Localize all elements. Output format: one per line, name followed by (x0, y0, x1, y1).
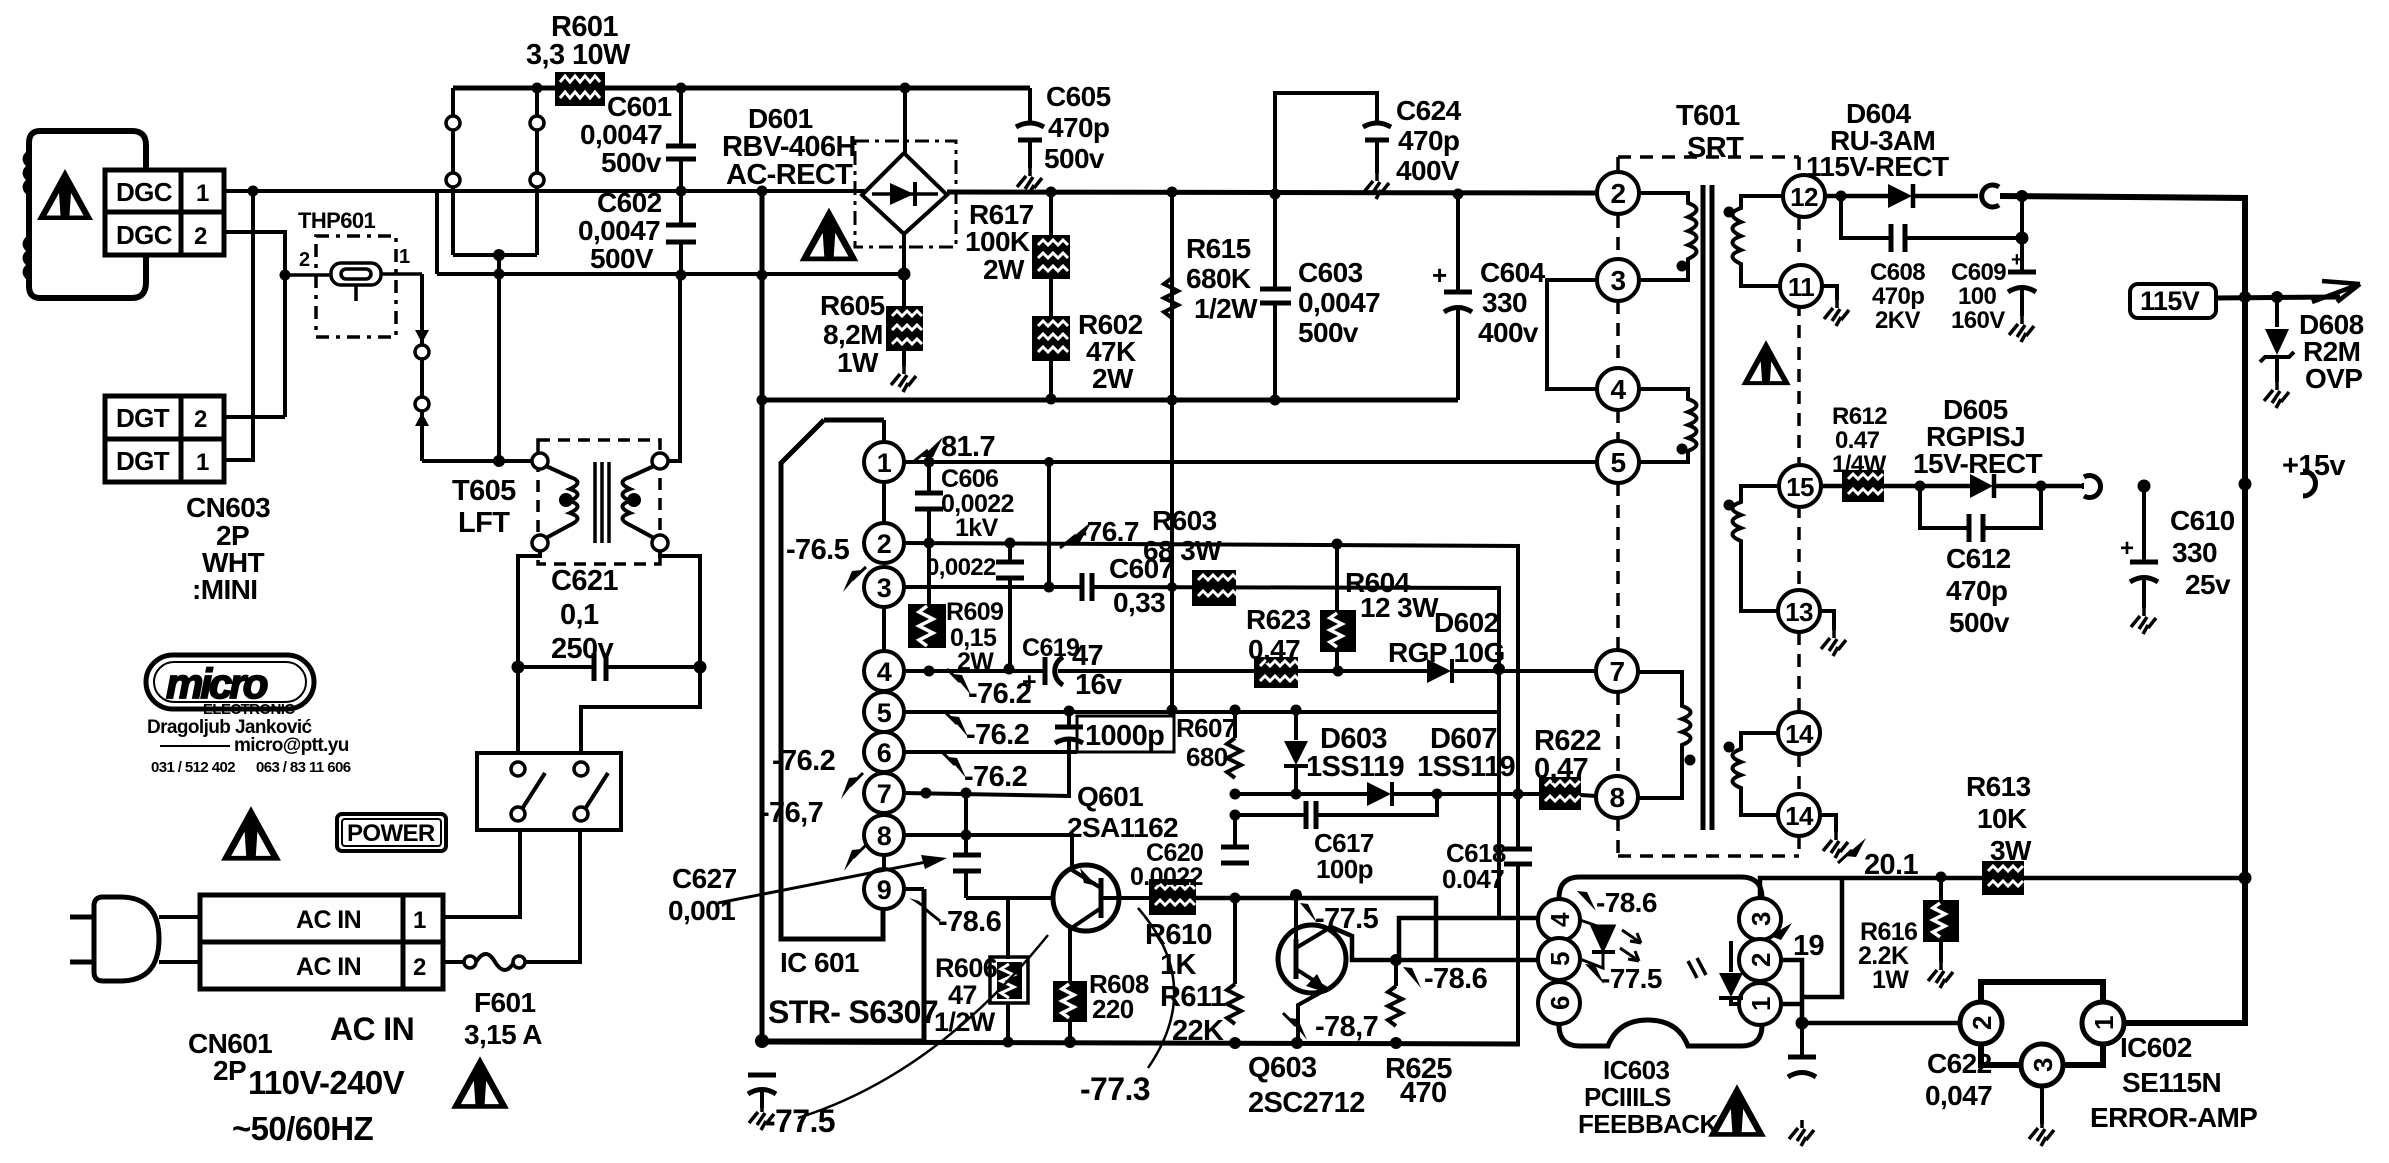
svg-text:-76.5: -76.5 (786, 534, 850, 566)
connector circles on loop (446, 116, 460, 130)
transformer T605 dashed box (538, 440, 660, 564)
wire D604 to bead (1913, 194, 1978, 199)
arrow to pin3 (843, 570, 862, 592)
transistor Q601 (1053, 865, 1119, 931)
svg-text:25v: 25v (2185, 569, 2231, 600)
wire loop center drop (497, 255, 501, 461)
capacitor C606 (927, 462, 931, 491)
resistor R607 (1227, 738, 1241, 778)
svg-text:-77.5: -77.5 (1601, 963, 1662, 994)
svg-text:IC 601: IC 601 (780, 947, 859, 978)
svg-text:2: 2 (1611, 178, 1626, 209)
svg-text:RGP 10G: RGP 10G (1388, 637, 1505, 668)
svg-text:+: + (2120, 535, 2134, 562)
wire IC602 bottom (1981, 1044, 2021, 1065)
svg-text:500V: 500V (590, 243, 654, 274)
svg-text:ERROR-AMP: ERROR-AMP (2090, 1102, 2257, 1133)
fuse THP601 symbol (285, 263, 422, 301)
diode D607 (1367, 782, 1391, 806)
plug CN601 (94, 897, 159, 981)
svg-text:12: 12 (1790, 182, 1818, 212)
capacitor C620 (1221, 845, 1249, 850)
svg-text:12 3W: 12 3W (1360, 592, 1439, 623)
connector AC IN box (200, 895, 443, 989)
svg-text:10K: 10K (1977, 803, 2027, 834)
svg-text:500v: 500v (601, 147, 662, 178)
resistor R613 (1982, 861, 2024, 895)
annotation -78.6 (pin4) (1577, 891, 1596, 911)
svg-text:0.47: 0.47 (1835, 427, 1880, 454)
wire DGC1 drop to THP bus (435, 191, 439, 274)
capacitor C603 (1273, 194, 1277, 287)
svg-text:C601: C601 (607, 91, 672, 122)
T605 core (593, 462, 597, 543)
svg-text:3: 3 (1746, 912, 1776, 926)
svg-text:-78.6: -78.6 (938, 906, 1002, 938)
winding primary 2-3 (1639, 193, 1697, 280)
svg-text:1SS119: 1SS119 (1306, 751, 1404, 783)
svg-text:R603: R603 (1152, 505, 1217, 536)
annotation -78.6 (right) (1403, 967, 1421, 988)
svg-text:R611: R611 (1160, 981, 1226, 1013)
svg-text:-77.3: -77.3 (1080, 1071, 1150, 1107)
annotation -76.2 (pin4) (953, 674, 971, 695)
LED inside IC603 (1580, 920, 1614, 950)
T605 right winding (623, 466, 655, 538)
svg-text:R607: R607 (1176, 713, 1236, 743)
wire pin1 line to T601 pin5 (904, 460, 1597, 464)
resistor R625 (1388, 986, 1402, 1026)
wire +15v line (2082, 483, 2084, 489)
chain link between IC601 pins (882, 420, 886, 442)
pin 1 (IC601) (864, 442, 904, 482)
wire left loop verticals (451, 88, 455, 255)
svg-text:1: 1 (196, 449, 209, 476)
bridge rectifier D601 (855, 141, 956, 247)
svg-text:0,001: 0,001 (668, 895, 735, 926)
svg-text:IC603: IC603 (1603, 1055, 1670, 1085)
annotation -76.7 (1067, 521, 1092, 542)
wire DGC1 (224, 189, 437, 193)
svg-text:1: 1 (196, 180, 209, 207)
svg-text:PCIIILS: PCIIILS (1584, 1082, 1671, 1112)
wire HV bus y=192 (bridge out) (947, 192, 1596, 193)
svg-text:-76.2: -76.2 (968, 678, 1031, 710)
svg-text:6: 6 (1545, 996, 1575, 1010)
svg-text:500v: 500v (1298, 317, 1359, 348)
svg-text:~50/60HZ: ~50/60HZ (232, 1110, 373, 1147)
svg-text:C610: C610 (2170, 505, 2235, 536)
wire pin15 to R612 (1821, 484, 1842, 489)
capacitor C619 (1043, 657, 1048, 685)
svg-text:D602: D602 (1434, 607, 1499, 638)
svg-text:1: 1 (413, 907, 426, 934)
wire D-line (D603/D607 to R622) (1235, 792, 1369, 796)
wire pin3 IC603 up to R613 line (1760, 878, 1841, 898)
svg-text:DGC: DGC (116, 177, 173, 207)
svg-text:C612: C612 (1946, 543, 2011, 574)
svg-text:7: 7 (1610, 656, 1625, 687)
pin 7 (IC601) (882, 772, 886, 773)
svg-text:R612: R612 (1832, 403, 1887, 430)
svg-text:5: 5 (1611, 447, 1626, 478)
svg-text:400v: 400v (1478, 317, 1539, 348)
ferrite bead (15V) (2084, 476, 2101, 498)
svg-text:14: 14 (1785, 801, 1814, 831)
wire R609 vertical (927, 543, 931, 604)
switch pole 1 (511, 762, 525, 776)
wire THP601 output down (420, 274, 424, 461)
node DGC2/THP junction (280, 270, 291, 281)
svg-text:1K: 1K (1160, 949, 1197, 981)
svg-text:4: 4 (877, 657, 892, 687)
node DGC1/DGT1 junction (248, 186, 259, 197)
svg-text:+15v: +15v (2282, 450, 2345, 482)
wire R612 to D605 (1884, 484, 1972, 489)
svg-text:-76.7: -76.7 (1078, 516, 1139, 547)
svg-text:4: 4 (1611, 374, 1627, 405)
svg-text:R605: R605 (820, 290, 885, 321)
diode D604 (1888, 184, 1912, 208)
svg-text:7: 7 (877, 779, 891, 809)
capacitor C617 (1235, 813, 1304, 817)
pin 11 (1780, 265, 1822, 307)
svg-text:AC IN: AC IN (330, 1011, 414, 1047)
svg-text:0,47: 0,47 (1248, 634, 1300, 665)
wire pin4 line (904, 669, 1043, 673)
svg-text:T605: T605 (452, 475, 516, 507)
connector +15v out (2303, 471, 2316, 496)
svg-text:470p: 470p (1872, 283, 1924, 310)
thermal protector THP601 dashed box (316, 236, 396, 337)
svg-text:250v: 250v (551, 633, 614, 665)
wire T605 top-right up to HV return (668, 275, 680, 461)
wire pin1 IC603 (1781, 1002, 1802, 1007)
resistor R615 (1170, 192, 1174, 710)
svg-text:R610: R610 (1145, 919, 1212, 951)
wire C627/R606 to Q601 base (966, 896, 1054, 900)
transformer core (1701, 185, 1706, 830)
wire riser pin1-line to pin3-line (1047, 462, 1051, 587)
svg-text:8: 8 (1610, 782, 1625, 813)
svg-text:Q603: Q603 (1248, 1052, 1317, 1084)
svg-text:3: 3 (2028, 1058, 2058, 1072)
switch (power) box (477, 753, 621, 830)
svg-text:2: 2 (1746, 953, 1776, 967)
resistor R604 (1335, 544, 1339, 610)
svg-text:OVP: OVP (2305, 363, 2362, 394)
annotation -76.2 (pin5) (950, 716, 968, 737)
winding secondary 14-14 (1733, 733, 1779, 815)
svg-text:0,047: 0,047 (1925, 1080, 1992, 1111)
winding secondary 15-13 (1733, 486, 1780, 611)
svg-text:3W: 3W (1990, 835, 2032, 866)
wire Q603 collector line (1331, 927, 1436, 960)
wire Q601 collector + resistor R608 (1068, 929, 1072, 981)
svg-text:D601: D601 (748, 103, 813, 134)
svg-text:5: 5 (1545, 952, 1575, 966)
wire bottom bus (762, 1042, 1520, 1044)
pin 4 (1597, 368, 1639, 410)
wire ground bus y=400 (762, 398, 1458, 403)
ferrite bead (115V) (1982, 185, 1999, 207)
annotation -77.5 (pin5) (1585, 964, 1604, 984)
optocoupler IC603 outline (1559, 877, 1762, 1046)
svg-text:-76.2: -76.2 (772, 745, 835, 777)
wire DGC2 (224, 232, 285, 417)
transformer T601 dashed box (1618, 157, 1799, 856)
svg-text:micro@ptt.yu: micro@ptt.yu (234, 735, 349, 756)
transistor Q603 (1278, 925, 1346, 993)
capacitor C604 (1456, 194, 1460, 290)
svg-text:-78.6: -78.6 (1424, 963, 1488, 995)
winding secondary 12-11 (1733, 196, 1784, 286)
annotation 19 (1770, 923, 1792, 940)
ground (IC602 pin3) (2040, 1086, 2044, 1124)
pin 2 (IC602) (1960, 1002, 2002, 1044)
resistor R622 (1539, 777, 1581, 810)
svg-text:1000p: 1000p (1085, 720, 1164, 752)
svg-text:47: 47 (1072, 640, 1103, 672)
svg-text:C621: C621 (551, 565, 618, 597)
wire pins 3-4 link (1547, 280, 1597, 389)
svg-text:-76.2: -76.2 (966, 719, 1029, 751)
svg-text:110V-240V: 110V-240V (248, 1064, 405, 1101)
svg-text:81.7: 81.7 (941, 431, 995, 463)
svg-text:C627: C627 (672, 863, 737, 894)
wire pin8 line (904, 835, 1072, 870)
svg-text:CN603: CN603 (186, 492, 270, 523)
pin 2 (1597, 172, 1639, 214)
phototransistor diode inside IC603 (1729, 941, 1733, 972)
svg-text:063 / 83 11 606: 063 / 83 11 606 (256, 759, 351, 776)
svg-text:0,47: 0,47 (1534, 753, 1588, 785)
svg-text:2: 2 (194, 223, 207, 250)
wire pin4 IC603 riser (1399, 918, 1537, 960)
svg-text:C603: C603 (1298, 257, 1363, 288)
pin 4 (IC601) (882, 607, 886, 651)
svg-text:6: 6 (877, 738, 892, 768)
svg-text:68 3W: 68 3W (1143, 535, 1222, 566)
capacitor C601 (679, 88, 683, 146)
svg-text:22K: 22K (1172, 1015, 1224, 1047)
resistor R612 (1842, 470, 1884, 502)
wire pin2 line (904, 543, 1518, 849)
pin 3 (IC603) (1739, 898, 1781, 940)
svg-text:2SC2712: 2SC2712 (1248, 1087, 1365, 1119)
svg-text:2P: 2P (213, 1055, 246, 1086)
svg-text:0,0047: 0,0047 (580, 119, 662, 150)
pin 3 (IC602) (2021, 1044, 2063, 1086)
svg-text:115V: 115V (2140, 286, 2200, 316)
wire pin4-line to pin7 T601 (1298, 669, 1429, 673)
svg-text:100K: 100K (965, 226, 1030, 257)
capacitor C618 (1504, 847, 1532, 852)
pin 15 (1779, 465, 1821, 507)
svg-text:680: 680 (1186, 742, 1228, 772)
wire to IC602 pin2 (1802, 1021, 1961, 1026)
resistor R602 (1032, 316, 1070, 361)
pin 6 (IC601) (864, 732, 904, 772)
capacitor C609 (2020, 196, 2024, 270)
svg-text:+: + (2011, 249, 2022, 271)
resistor R617 (1049, 192, 1053, 399)
warning triangle (power) (221, 806, 281, 861)
wire pin3 line (C607/R603) (904, 585, 1080, 589)
capacitor C602 (666, 223, 696, 228)
wire pin5 line (904, 710, 1499, 714)
svg-text:1W: 1W (1872, 966, 1909, 994)
svg-text:1/2W: 1/2W (1194, 293, 1258, 324)
svg-text:STR- S6307: STR- S6307 (768, 994, 938, 1030)
ground (pin 11) (1822, 286, 1837, 300)
svg-text:R613: R613 (1966, 771, 2031, 802)
connector CN603 DGC box (105, 170, 224, 255)
svg-text:160V: 160V (1951, 307, 2005, 334)
warning triangle (degauss) (37, 169, 93, 220)
svg-text:1: 1 (2089, 1016, 2119, 1030)
resistor R610 (1149, 879, 1196, 915)
pin 9 (IC601) (882, 855, 886, 869)
svg-text:R615: R615 (1186, 233, 1251, 264)
wire into T605 top-left (422, 459, 532, 463)
wire pin6 line (904, 750, 1077, 754)
svg-text:-78,7: -78,7 (1315, 1011, 1378, 1043)
svg-text:C619: C619 (1022, 634, 1079, 662)
resistor R611 (1227, 984, 1241, 1024)
wire R613 line (1841, 876, 1982, 881)
warning triangle (bridge) (800, 208, 859, 262)
svg-text:3: 3 (877, 573, 892, 603)
wire Q603 emitter (1298, 989, 1327, 1043)
capacitor C624 (1275, 93, 1377, 194)
pin 3 (IC601) (864, 567, 904, 607)
connector marks on wire (415, 330, 429, 343)
svg-text:11: 11 (1788, 272, 1814, 302)
svg-text:100p: 100p (1316, 854, 1373, 884)
capacitor C627 (964, 793, 968, 853)
wire pin12 to D604 (1825, 194, 1890, 199)
svg-text:R623: R623 (1246, 604, 1311, 635)
switch pole 2 (574, 762, 588, 776)
svg-text:R609: R609 (946, 598, 1003, 626)
svg-text:0,33: 0,33 (1113, 587, 1165, 618)
resistor R605 (886, 306, 923, 351)
svg-text:C606: C606 (941, 465, 998, 493)
svg-text:IC602: IC602 (2120, 1032, 2192, 1063)
svg-text:+: + (1432, 260, 1447, 290)
wire base line to IC603 pin5 (1196, 898, 1537, 960)
pin 7 (1596, 650, 1638, 692)
svg-text:0.047: 0.047 (1442, 864, 1504, 894)
pin 13 (1778, 590, 1820, 632)
svg-text:2: 2 (1967, 1016, 1997, 1030)
svg-text:C604: C604 (1480, 257, 1546, 288)
ground (pin 13) (1820, 611, 1834, 630)
svg-text:FEEBBACK: FEEBBACK (1578, 1109, 1718, 1139)
label 115V box (2130, 284, 2216, 318)
pin 1 (IC602) (2082, 1002, 2124, 1044)
svg-text:SE115N: SE115N (2122, 1067, 2221, 1098)
resistor R606 (1006, 898, 1010, 959)
svg-text:330: 330 (1482, 287, 1527, 318)
svg-text:-76.2: -76.2 (964, 761, 1027, 793)
svg-text:9: 9 (877, 875, 892, 905)
svg-text:2: 2 (194, 406, 207, 433)
pin 5 (IC603) (1538, 938, 1580, 980)
svg-text:DGT: DGT (116, 446, 170, 476)
wire 115V to arrow (2216, 297, 2340, 298)
wire left main vertical x=762 (760, 191, 765, 1041)
svg-text:C624: C624 (1396, 95, 1462, 126)
svg-text:T601: T601 (1676, 100, 1740, 132)
pin 12 (1783, 175, 1825, 217)
svg-text:AC IN: AC IN (296, 953, 361, 981)
svg-text:19: 19 (1793, 930, 1825, 962)
zener D608 (2275, 297, 2279, 327)
svg-text:1kV: 1kV (955, 514, 999, 542)
capacitor C608 (1841, 196, 1889, 238)
ground cap below IC601 (748, 1073, 776, 1078)
annotation -78.7 (1289, 1018, 1307, 1040)
pin 5 (IC601) (864, 692, 904, 732)
svg-text:470p: 470p (1946, 575, 2007, 606)
pin 3 (1597, 259, 1639, 301)
diode D602 (1427, 659, 1451, 683)
wire loop bottom (453, 253, 537, 257)
pin 4 (IC603) (1538, 899, 1580, 941)
svg-text:0,1: 0,1 (560, 599, 599, 631)
svg-text:100: 100 (1958, 283, 1996, 310)
svg-text:1: 1 (399, 246, 410, 268)
svg-text:AC-RECT: AC-RECT (726, 159, 853, 191)
svg-text:DGT: DGT (116, 403, 170, 433)
wire T605 bottom-left to C621 (518, 551, 540, 667)
wire bridge bottom to R605 (902, 234, 906, 306)
svg-text:ELECTRONIC: ELECTRONIC (203, 701, 295, 718)
warning triangle (AC) (451, 1056, 509, 1109)
svg-text:470p: 470p (1398, 125, 1459, 156)
pin 14 (lower) (1778, 794, 1820, 836)
wire pin7 line junction dots (921, 788, 932, 799)
wire IC602 top bracket (1981, 982, 2103, 1002)
svg-text:C605: C605 (1046, 81, 1111, 112)
connector CN603 DGT box (105, 396, 224, 482)
wire THP bus y=274 (437, 272, 904, 276)
winding feedback 7-8 (1638, 672, 1691, 798)
svg-text:1: 1 (877, 448, 892, 478)
wire IC602 pin1 to 115V feedback (2124, 1020, 2245, 1026)
svg-text:4: 4 (1545, 912, 1575, 927)
svg-text:2: 2 (413, 954, 426, 981)
capacitor 1000p (1067, 711, 1071, 725)
svg-text:R606: R606 (935, 953, 998, 983)
warning triangle (IC603) (1708, 1084, 1766, 1137)
wire Q601 base line (1101, 896, 1149, 900)
svg-text:14: 14 (1785, 719, 1814, 749)
svg-text:THP601: THP601 (298, 208, 375, 233)
svg-text:3,15 A: 3,15 A (464, 1019, 542, 1050)
wire HV line y=191 (437, 189, 865, 193)
svg-text:3: 3 (1611, 265, 1626, 296)
svg-text:8,2M: 8,2M (823, 319, 883, 350)
annotation 20.1 (1845, 838, 1866, 857)
pin 2 (IC603) (1739, 939, 1781, 981)
svg-text:115V-RECT: 115V-RECT (1806, 151, 1949, 182)
pin 8 (IC601) (864, 815, 904, 855)
arrow 115V out (2312, 281, 2360, 302)
wire pin9 to ground bus (904, 887, 924, 891)
